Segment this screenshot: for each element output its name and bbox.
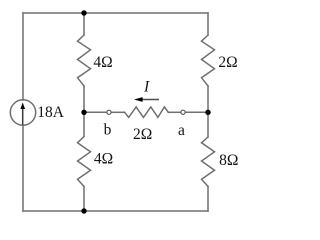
- current I arrow shaft: [142, 99, 159, 101]
- terminal a open circle: [181, 110, 185, 114]
- wire right side between 2ohm and node a junction: [207, 86, 209, 112]
- svg-text:2Ω: 2Ω: [218, 54, 237, 71]
- svg-text:8Ω: 8Ω: [219, 152, 238, 169]
- wire bottom rail: [23, 210, 208, 212]
- wire middle branch below node: [83, 112, 85, 136]
- wire top rail: [23, 12, 208, 14]
- wire middle branch top lead: [83, 13, 85, 35]
- resistor 2ohm middle horizontal: [125, 107, 169, 118]
- svg-text:2Ω: 2Ω: [133, 126, 152, 143]
- resistor 2ohm top right: [202, 35, 215, 86]
- svg-text:a: a: [178, 122, 185, 139]
- resistor 8ohm bottom right: [202, 137, 215, 187]
- current I arrowhead: [134, 97, 143, 102]
- current source arrow shaft: [22, 109, 24, 125]
- svg-text:4Ω: 4Ω: [94, 151, 113, 168]
- wire terminal a to right rail: [185, 111, 208, 113]
- wire terminal b to 2ohm resistor: [111, 111, 125, 113]
- svg-text:I: I: [143, 78, 150, 95]
- junction dot bottom of middle branch: [81, 208, 86, 213]
- wire right side between node a junction and 8ohm: [207, 112, 209, 137]
- wire left side lower (from current source): [22, 125, 24, 211]
- resistor 4ohm top middle: [78, 35, 91, 86]
- junction dot node b branch point: [81, 110, 86, 115]
- svg-text:b: b: [104, 122, 112, 139]
- junction dot node a on right rail: [205, 110, 210, 115]
- wire left side upper (to current source): [22, 13, 24, 100]
- terminal b open circle: [107, 110, 111, 114]
- current source arrowhead: [20, 102, 25, 109]
- wire middle branch bottom lead: [83, 187, 85, 212]
- wire middle branch between 4ohm and node: [83, 86, 85, 112]
- svg-text:4Ω: 4Ω: [93, 54, 112, 71]
- wire right side top lead: [207, 13, 209, 35]
- current source circle 18A: [10, 100, 35, 125]
- svg-text:18A: 18A: [37, 104, 65, 121]
- wire 2ohm resistor to terminal a: [168, 111, 181, 113]
- junction dot top of middle branch: [81, 10, 86, 15]
- resistor 4ohm bottom middle: [78, 137, 91, 187]
- wire right side bottom lead: [207, 187, 209, 212]
- wire node to terminal b: [84, 111, 107, 113]
